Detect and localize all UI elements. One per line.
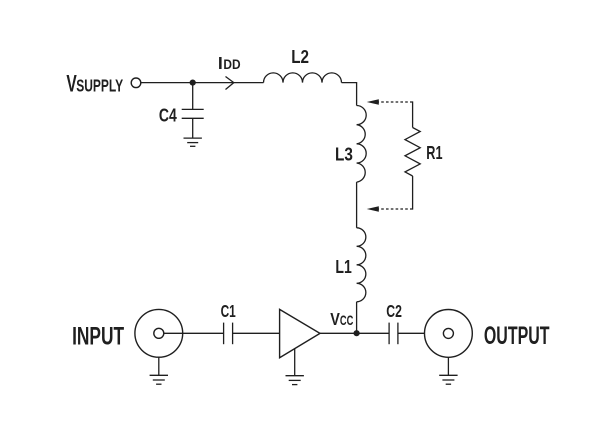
svg-text:SUPPLY: SUPPLY (76, 75, 123, 95)
svg-text:L3: L3 (335, 145, 353, 165)
svg-text:L2: L2 (291, 47, 309, 67)
svg-text:INPUT: INPUT (72, 323, 124, 350)
svg-text:DD: DD (223, 57, 240, 72)
svg-text:C1: C1 (221, 301, 236, 321)
svg-text:C4: C4 (159, 106, 177, 126)
svg-text:L1: L1 (335, 257, 351, 277)
svg-text:R1: R1 (426, 143, 442, 163)
svg-text:CC: CC (340, 313, 354, 328)
svg-text:OUTPUT: OUTPUT (484, 323, 550, 350)
svg-text:C2: C2 (386, 301, 402, 321)
svg-text:I: I (218, 53, 223, 73)
svg-text:V: V (330, 309, 340, 329)
